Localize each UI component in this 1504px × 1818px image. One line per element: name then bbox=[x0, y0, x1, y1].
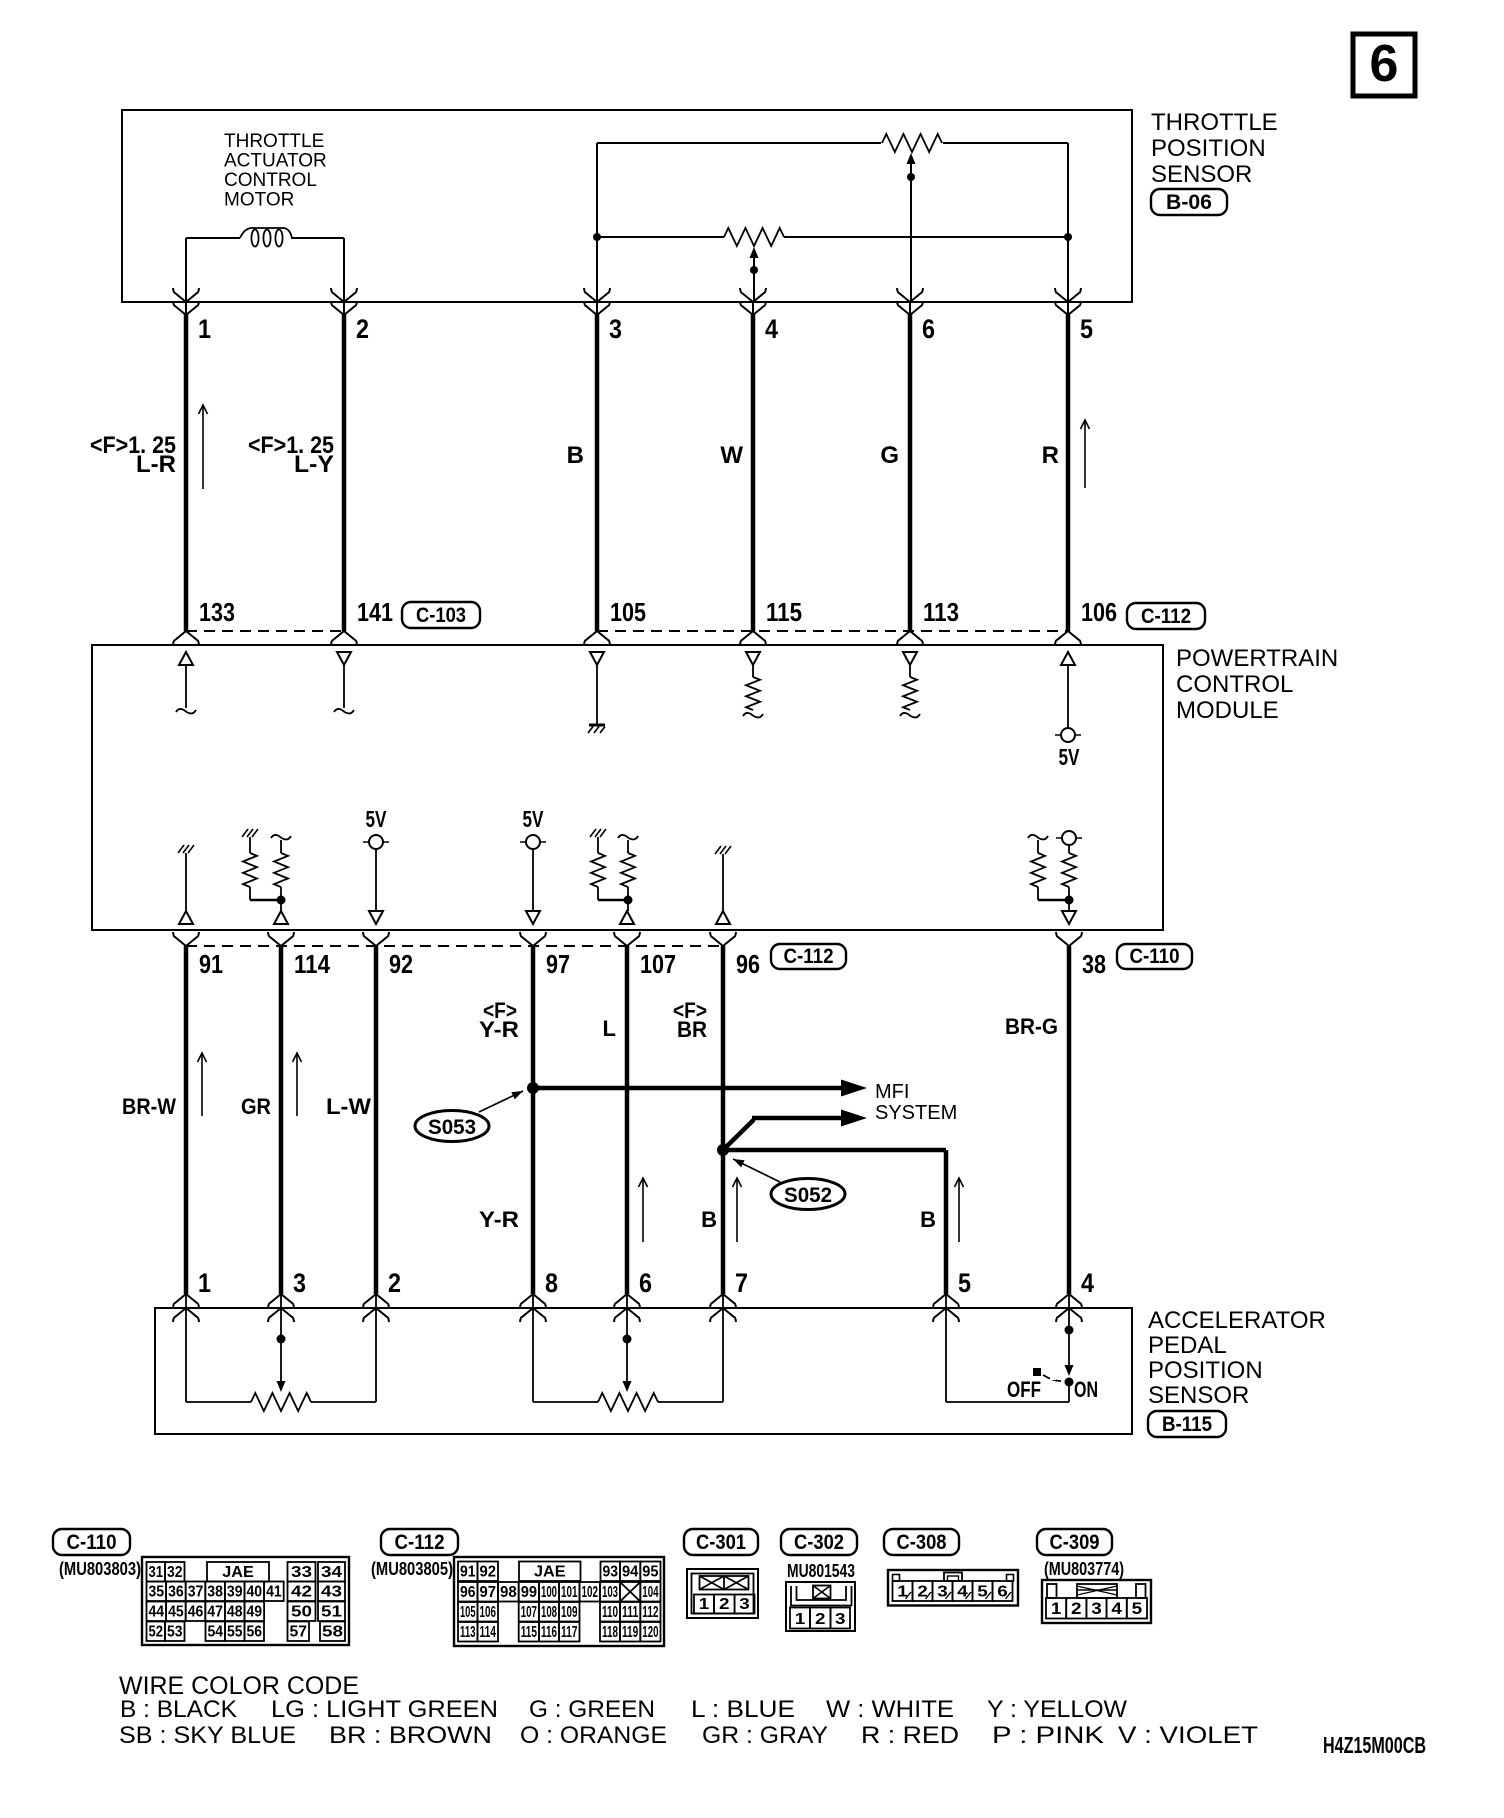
connector label C-302 pinout bbox=[781, 1529, 857, 1555]
svg-text:99: 99 bbox=[521, 1584, 537, 1601]
connector chevrons B-115 pin 8 bbox=[520, 1294, 546, 1308]
svg-text:118: 118 bbox=[602, 1624, 618, 1641]
svg-text:34: 34 bbox=[321, 1564, 342, 1581]
svg-text:97: 97 bbox=[546, 949, 570, 979]
connector label C-110 bbox=[1117, 944, 1192, 969]
connector dashed line C-112 bottom bbox=[186, 945, 723, 947]
svg-text:5: 5 bbox=[1132, 1599, 1143, 1618]
wire B-06 pin 2 to PCM (thick) bbox=[342, 314, 347, 631]
resistor pot upper bbox=[882, 134, 942, 152]
svg-text:5V: 5V bbox=[523, 806, 544, 832]
connector chevron PCM bottom pin 97 bbox=[520, 932, 546, 946]
svg-text:C-302: C-302 bbox=[794, 1531, 844, 1554]
connector pinout C-302 bbox=[786, 1582, 855, 1631]
wire PCM pin 91 down (thick) bbox=[184, 946, 189, 1294]
svg-text:7: 7 bbox=[735, 1268, 748, 1298]
node junction pin 114 bbox=[277, 896, 286, 905]
svg-text:L: L bbox=[603, 1016, 616, 1041]
connector pinout grid C-112 bbox=[454, 1557, 664, 1646]
svg-text:BR-G: BR-G bbox=[1005, 1014, 1058, 1039]
accel pot1 wire pin2 side bbox=[375, 1308, 377, 1402]
svg-text:108: 108 bbox=[541, 1604, 557, 1621]
svg-text:91: 91 bbox=[199, 949, 223, 979]
pcm internal pin 96: hash and triangle bbox=[715, 846, 721, 854]
svg-text:141: 141 bbox=[357, 597, 393, 627]
connector chevrons B-115 pin 3 bbox=[268, 1294, 294, 1308]
svg-text:B-115: B-115 bbox=[1162, 1413, 1212, 1436]
svg-text:L-W: L-W bbox=[326, 1094, 371, 1119]
svg-text:R: R bbox=[1042, 442, 1059, 469]
svg-text:3: 3 bbox=[293, 1268, 306, 1298]
svg-text:P : PINK: P : PINK bbox=[992, 1722, 1104, 1749]
svg-text:32: 32 bbox=[167, 1564, 183, 1581]
svg-text:31: 31 bbox=[149, 1564, 164, 1581]
svg-text:94: 94 bbox=[622, 1564, 638, 1581]
svg-text:1: 1 bbox=[198, 1268, 211, 1298]
wire pin3 vertical bbox=[596, 143, 598, 302]
accel pot1 wire pin1 side bbox=[185, 1308, 187, 1402]
svg-text:GR : GRAY: GR : GRAY bbox=[702, 1722, 828, 1749]
svg-text:BR: BR bbox=[677, 1017, 707, 1042]
node wiper dot accel pot1 bbox=[277, 1335, 286, 1344]
tabs C-308 bbox=[893, 1575, 900, 1582]
svg-text:H4Z15M00CB: H4Z15M00CB bbox=[1323, 1732, 1426, 1758]
accel pot1 wiper from pin3 bbox=[280, 1308, 282, 1381]
svg-text:ACTUATOR: ACTUATOR bbox=[224, 151, 327, 172]
svg-text:50: 50 bbox=[291, 1604, 312, 1621]
svg-text:116: 116 bbox=[541, 1624, 557, 1641]
node wiper dot pin4 bbox=[750, 266, 758, 274]
svg-text:117: 117 bbox=[561, 1624, 578, 1641]
svg-text:113: 113 bbox=[460, 1624, 476, 1641]
wire branch 96 to pin5 bbox=[723, 1148, 946, 1153]
svg-text:92: 92 bbox=[389, 949, 413, 979]
connector chevron PCM bottom pin 114 bbox=[268, 932, 294, 946]
node junction pin 107 bbox=[624, 896, 633, 905]
svg-text:POSITION: POSITION bbox=[1151, 135, 1266, 162]
wire PCM pin 107 down (thick) bbox=[625, 946, 630, 1294]
svg-text:102: 102 bbox=[582, 1584, 599, 1601]
svg-text:B: B bbox=[567, 442, 584, 469]
svg-text:S052: S052 bbox=[784, 1184, 832, 1207]
svg-text:6: 6 bbox=[639, 1268, 652, 1298]
svg-text:44: 44 bbox=[149, 1604, 165, 1621]
svg-text:101: 101 bbox=[561, 1584, 578, 1601]
wire coil to motor pin2 bbox=[291, 237, 344, 239]
pin cells C-301 bbox=[694, 1595, 714, 1614]
svg-text:MU801543: MU801543 bbox=[787, 1561, 855, 1581]
svg-text:115: 115 bbox=[766, 597, 802, 627]
svg-text:(MU803805): (MU803805) bbox=[371, 1559, 453, 1579]
svg-text:6: 6 bbox=[1370, 35, 1399, 93]
svg-text:L : BLUE: L : BLUE bbox=[691, 1696, 795, 1723]
svg-text:3: 3 bbox=[1091, 1599, 1102, 1618]
svg-text:MFI: MFI bbox=[875, 1081, 909, 1103]
svg-text:ACCELERATOR: ACCELERATOR bbox=[1148, 1307, 1326, 1334]
page number box 6 bbox=[1353, 34, 1415, 96]
svg-text:1: 1 bbox=[699, 1596, 710, 1613]
svg-text:45: 45 bbox=[168, 1604, 184, 1621]
svg-text:V : VIOLET: V : VIOLET bbox=[1118, 1722, 1258, 1749]
connector chevron PCM bottom pin 92 bbox=[363, 932, 389, 946]
connector pinout C-308 bbox=[888, 1570, 1018, 1606]
svg-text:MODULE: MODULE bbox=[1176, 697, 1279, 724]
svg-text:2: 2 bbox=[815, 1611, 826, 1628]
wire B-06 pin 1 to PCM (thick) bbox=[184, 314, 189, 631]
svg-text:38: 38 bbox=[207, 1584, 223, 1601]
connector chevron PCM pin 105 bbox=[584, 631, 610, 645]
svg-text:L-Y: L-Y bbox=[294, 451, 334, 478]
svg-text:3: 3 bbox=[609, 314, 622, 344]
svg-text:5V: 5V bbox=[1059, 744, 1080, 770]
pin cells C-308 bbox=[893, 1581, 913, 1601]
accel pot2 wire pin7 side bbox=[658, 1401, 723, 1403]
node dot accel switch pin4 bbox=[1065, 1326, 1074, 1335]
pin cells C-309 bbox=[1046, 1598, 1066, 1619]
svg-text:(MU803803): (MU803803) bbox=[59, 1559, 141, 1579]
connector label C-308 pinout bbox=[884, 1529, 959, 1555]
connector chevron PCM bottom pin 91 bbox=[173, 932, 199, 946]
svg-text:C-110: C-110 bbox=[1130, 945, 1180, 968]
svg-text:39: 39 bbox=[227, 1584, 243, 1601]
keying X cell C-112 bbox=[620, 1582, 640, 1602]
connector chevron PCM bottom pin 96 bbox=[710, 932, 736, 946]
svg-text:92: 92 bbox=[480, 1564, 497, 1581]
svg-text:41: 41 bbox=[266, 1584, 282, 1601]
wire B-06 pin 5 to PCM (thick) bbox=[1066, 314, 1071, 631]
svg-text:B : BLACK: B : BLACK bbox=[120, 1696, 237, 1723]
svg-text:105: 105 bbox=[610, 597, 646, 627]
connector label C-301 pinout bbox=[684, 1529, 758, 1555]
svg-text:53: 53 bbox=[167, 1624, 183, 1641]
svg-text:MOTOR: MOTOR bbox=[224, 190, 294, 211]
splice callout S053 bbox=[415, 1111, 489, 1142]
svg-text:CONTROL: CONTROL bbox=[1176, 671, 1293, 698]
svg-text:S053: S053 bbox=[428, 1116, 476, 1139]
switch arm arrow (ON position) bbox=[1065, 1365, 1074, 1376]
svg-text:G : GREEN: G : GREEN bbox=[529, 1696, 655, 1723]
pcm internal pin 141: triangle and coil hook bbox=[337, 652, 351, 665]
svg-text:6: 6 bbox=[922, 314, 935, 344]
accel pot2 wire pin8 side bbox=[532, 1308, 534, 1402]
svg-text:OFF: OFF bbox=[1007, 1377, 1041, 1402]
svg-text:SB : SKY BLUE: SB : SKY BLUE bbox=[119, 1722, 296, 1749]
svg-text:97: 97 bbox=[480, 1584, 497, 1601]
wire B-06 pin 6 to PCM (thick) bbox=[908, 314, 913, 631]
pcm internal pin 106: triangle to 5V supply bbox=[1061, 652, 1075, 665]
switch throw dashed arc bbox=[1043, 1375, 1061, 1381]
svg-text:SENSOR: SENSOR bbox=[1148, 1382, 1249, 1409]
svg-text:54: 54 bbox=[208, 1624, 224, 1641]
svg-text:2: 2 bbox=[388, 1268, 401, 1298]
svg-text:51: 51 bbox=[321, 1604, 342, 1621]
svg-text:114: 114 bbox=[294, 949, 330, 979]
connector pinout C-301 bbox=[687, 1569, 758, 1618]
connector chevrons B-115 pin 1 bbox=[173, 1294, 199, 1308]
wire PCM pin 114 down (thick) bbox=[279, 946, 284, 1294]
connector label C-110 pinout bbox=[53, 1529, 130, 1555]
accel switch wire pin4 side bbox=[1068, 1308, 1070, 1366]
svg-text:49: 49 bbox=[247, 1604, 263, 1621]
svg-text:43: 43 bbox=[321, 1584, 342, 1601]
splice callout S052 bbox=[771, 1179, 845, 1210]
svg-text:C-112: C-112 bbox=[1141, 605, 1191, 628]
svg-text:2: 2 bbox=[1071, 1599, 1082, 1618]
connector chevrons B-115 pin 5 bbox=[933, 1294, 959, 1308]
connector chevrons B-115 pin 2 bbox=[363, 1294, 389, 1308]
svg-text:1: 1 bbox=[795, 1611, 806, 1628]
svg-text:46: 46 bbox=[188, 1604, 204, 1621]
svg-text:(MU803774): (MU803774) bbox=[1044, 1559, 1124, 1579]
wiper arrow accel pot2 bbox=[623, 1381, 632, 1392]
connector label C-112 top bbox=[1127, 603, 1205, 629]
svg-text:119: 119 bbox=[622, 1624, 638, 1641]
resistor pot lower bbox=[724, 228, 784, 246]
svg-text:LG : LIGHT GREEN: LG : LIGHT GREEN bbox=[271, 1696, 498, 1723]
node wiper dot pin6 bbox=[907, 173, 915, 181]
connector pinout grid C-110 bbox=[142, 1557, 349, 1645]
svg-text:4: 4 bbox=[765, 314, 778, 344]
connector chevron PCM pin 115 bbox=[740, 631, 766, 645]
inductor motor coil bbox=[240, 228, 251, 238]
svg-text:110: 110 bbox=[602, 1604, 618, 1621]
svg-text:96: 96 bbox=[460, 1584, 476, 1601]
pcm internal pin 133: triangle and coil hook bbox=[179, 652, 193, 665]
connector chevron PCM pin 113 bbox=[897, 631, 923, 645]
svg-text:33: 33 bbox=[291, 1564, 312, 1581]
connector chevrons B-115 pin 6 bbox=[614, 1294, 640, 1308]
svg-text:C-103: C-103 bbox=[416, 604, 466, 627]
svg-text:42: 42 bbox=[291, 1584, 312, 1601]
connector label C-103 bbox=[402, 602, 480, 628]
svg-text:2: 2 bbox=[719, 1596, 730, 1613]
svg-text:C-301: C-301 bbox=[696, 1531, 746, 1554]
connector chevron PCM pin 106 bbox=[1055, 631, 1081, 645]
node wiper dot accel pot2 bbox=[623, 1335, 632, 1344]
svg-text:91: 91 bbox=[460, 1564, 476, 1581]
node switch contact dot bbox=[1065, 1378, 1074, 1387]
ground pcm pin 105 bbox=[589, 724, 605, 727]
svg-text:3: 3 bbox=[739, 1596, 750, 1613]
connector chevrons B-06 pin 1 bbox=[173, 288, 199, 302]
svg-text:POWERTRAIN: POWERTRAIN bbox=[1176, 645, 1338, 672]
svg-text:36: 36 bbox=[168, 1584, 184, 1601]
svg-text:3: 3 bbox=[835, 1611, 846, 1628]
wire B-06 pin 4 to PCM (thick) bbox=[751, 314, 756, 631]
connector chevrons B-06 pin 2 bbox=[331, 288, 357, 302]
connector chevrons B-115 pin 4 bbox=[1056, 1294, 1082, 1308]
svg-text:ON: ON bbox=[1074, 1377, 1098, 1402]
svg-text:1: 1 bbox=[198, 314, 211, 344]
wire pot upper rail bbox=[597, 142, 881, 144]
wire B-06 pin 3 to PCM (thick) bbox=[595, 314, 600, 631]
svg-text:113: 113 bbox=[923, 597, 959, 627]
node junction pin3 lower rail bbox=[593, 233, 601, 241]
svg-text:SYSTEM: SYSTEM bbox=[875, 1102, 957, 1124]
wire motor pin1 to coil bbox=[186, 237, 240, 239]
svg-text:PEDAL: PEDAL bbox=[1148, 1332, 1227, 1359]
svg-text:106: 106 bbox=[480, 1604, 497, 1621]
arrow to MFI system 1 bbox=[841, 1080, 867, 1097]
svg-text:C-309: C-309 bbox=[1050, 1531, 1100, 1554]
svg-text:56: 56 bbox=[247, 1624, 263, 1641]
power symbol 5V (pin 106) bbox=[1055, 734, 1081, 736]
svg-text:104: 104 bbox=[642, 1584, 658, 1601]
svg-text:B: B bbox=[701, 1207, 717, 1232]
svg-text:L-R: L-R bbox=[136, 451, 176, 478]
wiper arrow pot lower to pin4 bbox=[750, 247, 759, 258]
wire PCM pin 38 down (thick) bbox=[1067, 946, 1072, 1294]
wire PCM pin 92 down (thick) bbox=[374, 946, 379, 1294]
svg-text:Y-R: Y-R bbox=[479, 1207, 519, 1232]
connector chevron PCM pin 133 bbox=[173, 631, 199, 645]
node junction pin 38 bbox=[1065, 896, 1074, 905]
keying X box C-302 bbox=[813, 1586, 831, 1599]
svg-text:98: 98 bbox=[500, 1584, 517, 1601]
svg-text:103: 103 bbox=[602, 1584, 618, 1601]
flow arrow wire 107 bbox=[642, 1179, 644, 1242]
connector pinout C-309 bbox=[1042, 1580, 1151, 1623]
connector chevrons B-06 pin 4 bbox=[740, 288, 766, 302]
svg-text:120: 120 bbox=[642, 1624, 658, 1641]
svg-text:93: 93 bbox=[603, 1564, 619, 1581]
svg-text:GR: GR bbox=[241, 1094, 271, 1119]
svg-text:C-110: C-110 bbox=[67, 1531, 117, 1554]
connector dashed line C-112 top bbox=[597, 630, 1068, 632]
svg-text:5: 5 bbox=[1080, 314, 1093, 344]
svg-text:96: 96 bbox=[736, 949, 760, 979]
svg-text:48: 48 bbox=[227, 1604, 243, 1621]
svg-text:4: 4 bbox=[1111, 1599, 1122, 1618]
wire PCM pin 96 down (thick) bbox=[721, 946, 726, 1294]
connector label B-06 bbox=[1151, 189, 1227, 215]
svg-text:BR : BROWN: BR : BROWN bbox=[329, 1722, 492, 1749]
connector chevrons B-06 pin 5 bbox=[1055, 288, 1081, 302]
svg-text:107: 107 bbox=[521, 1604, 537, 1621]
wire motor pin1 drop bbox=[185, 238, 187, 302]
resistor accel pot1 bbox=[251, 1393, 311, 1411]
pcm internal pin 107: two resistors to hash and hook bbox=[590, 829, 596, 837]
connector label C-112 pinout bbox=[381, 1529, 458, 1555]
flow arrow wire 114 bbox=[296, 1054, 298, 1116]
pcm internal pin 38: resistors to hook and 5V bbox=[1028, 835, 1048, 840]
svg-text:BR-W: BR-W bbox=[122, 1094, 176, 1119]
svg-text:95: 95 bbox=[642, 1564, 658, 1581]
resistor accel pot2 bbox=[598, 1393, 658, 1411]
pin cells C-302 bbox=[790, 1608, 810, 1629]
wire junction diagonal to MFI system (S052) bbox=[723, 1120, 754, 1151]
svg-text:SENSOR: SENSOR bbox=[1151, 161, 1252, 188]
svg-text:35: 35 bbox=[149, 1584, 165, 1601]
switch OFF position square bbox=[1033, 1368, 1041, 1376]
accel switch wire pin5 side bbox=[945, 1308, 947, 1402]
svg-text:B: B bbox=[920, 1207, 936, 1232]
svg-text:Y : YELLOW: Y : YELLOW bbox=[987, 1696, 1127, 1723]
svg-text:111: 111 bbox=[622, 1604, 638, 1621]
svg-text:55: 55 bbox=[227, 1624, 243, 1641]
svg-text:37: 37 bbox=[188, 1584, 204, 1601]
pcm internal pin 115: triangle resistor hook bbox=[746, 652, 760, 665]
svg-text:Y-R: Y-R bbox=[479, 1017, 519, 1042]
connector label B-115 bbox=[1148, 1411, 1226, 1437]
svg-text:52: 52 bbox=[149, 1624, 164, 1641]
component box B-115 accelerator pedal position sensor bbox=[155, 1308, 1132, 1434]
svg-text:W : WHITE: W : WHITE bbox=[826, 1696, 954, 1723]
connector chevrons B-06 pin 6 bbox=[897, 288, 923, 302]
svg-text:R : RED: R : RED bbox=[861, 1722, 959, 1749]
svg-text:106: 106 bbox=[1081, 597, 1117, 627]
svg-text:38: 38 bbox=[1082, 949, 1106, 979]
svg-text:C-112: C-112 bbox=[784, 945, 834, 968]
connector chevrons B-06 pin 3 bbox=[584, 288, 610, 302]
connector label C-309 pinout bbox=[1037, 1529, 1112, 1555]
svg-text:115: 115 bbox=[521, 1624, 537, 1641]
flow arrow wire 91 bbox=[201, 1054, 203, 1116]
node junction S053 bbox=[527, 1082, 539, 1094]
component box powertrain control module bbox=[92, 645, 1163, 930]
svg-text:THROTTLE: THROTTLE bbox=[224, 131, 324, 152]
svg-text:47: 47 bbox=[207, 1604, 223, 1621]
wiper arrow accel pot1 bbox=[277, 1381, 286, 1392]
pcm internal pin 114: two resistors to hash and hook bbox=[242, 829, 248, 837]
flow arrow wire 5 bbox=[1084, 421, 1086, 488]
wire pin5 vertical bbox=[1067, 143, 1069, 302]
connector chevron PCM bottom pin 38 bbox=[1056, 932, 1082, 946]
tabs C-309 bbox=[1047, 1584, 1057, 1598]
svg-text:CONTROL: CONTROL bbox=[224, 170, 317, 191]
pcm internal pin 113: triangle resistor hook bbox=[903, 652, 917, 665]
svg-text:C-112: C-112 bbox=[395, 1531, 445, 1554]
arrow to MFI system 2 bbox=[841, 1110, 867, 1127]
component box B-06 throttle position sensor bbox=[122, 110, 1132, 302]
svg-text:JAE: JAE bbox=[222, 1564, 254, 1581]
keying boxes C-301 bbox=[700, 1576, 749, 1590]
svg-text:POSITION: POSITION bbox=[1148, 1357, 1263, 1384]
svg-text:57: 57 bbox=[290, 1624, 308, 1641]
svg-text:W: W bbox=[720, 442, 743, 469]
pcm internal pin 105: triangle and ground bbox=[590, 652, 604, 665]
svg-text:5: 5 bbox=[958, 1268, 971, 1298]
wire junction to MFI system (S053) bbox=[533, 1086, 841, 1091]
svg-text:1: 1 bbox=[1051, 1599, 1062, 1618]
pcm internal pin 91: hash and triangle bbox=[178, 845, 184, 853]
flow arrow wire 1 bbox=[202, 406, 204, 489]
svg-text:40: 40 bbox=[247, 1584, 263, 1601]
svg-text:58: 58 bbox=[322, 1624, 343, 1641]
wiper arrow pot upper to pin6 bbox=[907, 153, 916, 164]
svg-text:100: 100 bbox=[541, 1584, 557, 1601]
svg-text:112: 112 bbox=[642, 1604, 658, 1621]
flow arrow wire 96 bbox=[736, 1179, 738, 1242]
connector chevrons B-115 pin 7 bbox=[710, 1294, 736, 1308]
connector label C-112 bottom bbox=[771, 944, 846, 969]
wire PCM pin 97 down (thick) bbox=[531, 946, 536, 1294]
svg-text:105: 105 bbox=[460, 1604, 476, 1621]
svg-text:133: 133 bbox=[199, 597, 235, 627]
wire pot lower rail bbox=[597, 236, 724, 238]
svg-text:THROTTLE: THROTTLE bbox=[1151, 109, 1278, 136]
svg-text:G: G bbox=[880, 442, 899, 469]
svg-text:109: 109 bbox=[561, 1604, 578, 1621]
accel pot2 wiper from pin6 bbox=[626, 1308, 628, 1381]
node junction pin5 lower rail bbox=[1064, 233, 1072, 241]
svg-text:2: 2 bbox=[356, 314, 369, 344]
svg-text:JAE: JAE bbox=[534, 1564, 566, 1581]
svg-text:4: 4 bbox=[1081, 1268, 1094, 1298]
svg-text:C-308: C-308 bbox=[897, 1531, 947, 1554]
flow arrow wire branch bbox=[958, 1179, 960, 1242]
connector chevron PCM bottom pin 107 bbox=[614, 932, 640, 946]
